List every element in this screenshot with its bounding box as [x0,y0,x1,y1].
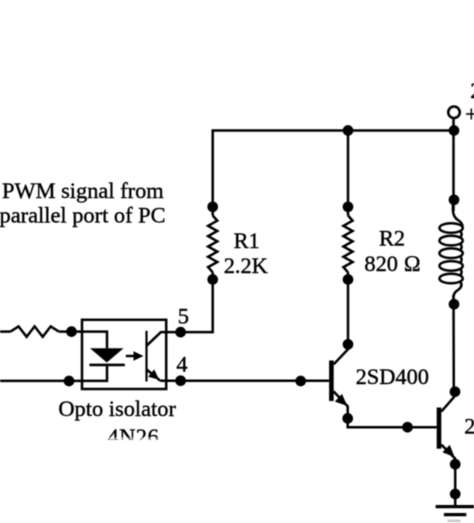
svg-text:24 V: 24 V [470,78,474,103]
svg-text:R1: R1 [234,228,260,253]
svg-text:4: 4 [176,352,187,377]
svg-text:R2: R2 [379,226,405,251]
svg-text:2.2K: 2.2K [224,253,268,278]
svg-text:820 Ω: 820 Ω [364,251,420,276]
svg-text:parallel port of PC: parallel port of PC [0,203,166,228]
svg-text:Opto isolator: Opto isolator [58,396,176,421]
svg-text:2SD400: 2SD400 [356,364,429,389]
svg-text:2SD400: 2SD400 [464,413,474,438]
svg-text:PWM signal from: PWM signal from [2,178,164,203]
svg-text:5: 5 [178,304,189,329]
svg-text:+: + [465,101,474,126]
